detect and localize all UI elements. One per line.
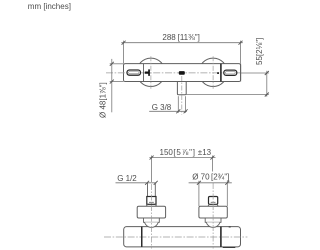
svg-text:150: 150 [160,148,174,157]
left rosette circle behind body [137,58,165,86]
bottom right cap top tick [229,226,231,228]
dim 55 line [266,71,268,97]
svg-text:Ø 70: Ø 70 [192,173,210,182]
dim 288 line [121,42,243,44]
left handle slot inner line [129,72,139,74]
left union flange [144,218,160,222]
svg-text:G 1/2: G 1/2 [117,174,137,183]
left supply pipe [147,183,149,197]
dim 150 extension left [151,156,153,183]
G1/2 leader line [116,182,157,184]
dim 150 extension right [211,156,213,172]
svg-text:Ø 48[1⅞"]: Ø 48[1⅞"] [98,82,107,118]
svg-text:288: 288 [162,33,176,42]
G3/8 leader line [149,110,187,112]
dim d48 tick top [110,62,114,66]
body bar [124,64,241,82]
right handle slot inner line [225,72,235,74]
right handle slot [224,70,237,75]
right union neck [208,204,209,206]
outlet spout G3/8 [177,82,186,95]
dim 150 tick right [210,156,214,160]
svg-text:[11⅜"]: [11⅜"] [178,33,200,42]
dim 288 extension left [123,41,125,64]
right thick joint [220,64,222,82]
left handle slot [127,70,141,75]
left boss arc [145,222,159,227]
bottom right cap sleeve step [223,247,236,249]
bottom view horizontal centerline [104,236,247,238]
right circle centerline [212,56,214,89]
bottom left cap joint [141,227,143,247]
svg-text:[2¾"]: [2¾"] [211,173,229,182]
dim 55 extension top (centerline) [241,72,269,74]
dim d70 extension left [198,181,200,206]
left union nut [147,197,156,205]
dim d48 tick bottom [110,80,114,84]
dim d48 extension top [110,63,124,65]
G3/8 tick right [184,109,188,113]
right rosette [199,206,227,218]
left circle centerline [150,56,152,89]
volume indicator dot [217,72,219,74]
center logo plate [179,71,185,75]
bottom right thick joint [220,227,222,247]
svg-text:[5⅞"]: [5⅞"] [173,148,195,157]
dim 55 tick bottom [265,93,269,97]
G3/8 extension right [185,96,187,113]
dim d70 tick left [197,181,201,185]
bottom body bar [124,227,241,247]
G1/2 tick right [154,181,158,185]
dim 288 tick right [239,41,243,45]
dim d48 extension bottom [110,81,124,83]
dim 288 tick left [122,41,126,45]
dim d70 tick right [225,181,229,185]
dim 150 line [149,157,215,159]
right cap edge [240,64,242,82]
G3/8 extension left [177,96,179,113]
G3/8 tick left [176,109,180,113]
right rosette circle behind body [199,58,227,86]
left union neck [146,204,147,206]
left assembly centerline [150,184,152,249]
dim d70 extension right [226,181,228,206]
svg-text:±13: ±13 [198,148,212,157]
svg-text:G 3/8: G 3/8 [152,103,172,112]
right assembly centerline [212,183,214,249]
dim 55 extension bottom [187,94,269,96]
G1/2 tick left [145,181,149,185]
right union flange [205,218,221,222]
right boss arc [206,222,220,227]
temperature T-mark [145,69,150,76]
horizontal centerline [106,72,241,74]
dim d70 line [189,182,232,184]
right union nut [209,197,218,205]
dim d48 line [111,59,113,112]
svg-text:55[2⅛"]: 55[2⅛"] [255,38,264,65]
outlet centerline [181,76,183,115]
dim 150 tick left [150,156,154,160]
svg-text:mm [inches]: mm [inches] [28,2,71,11]
dim 288 extension right [240,41,242,64]
left cap joint line [143,64,145,82]
dim 55 tick top [265,71,269,75]
left rosette [137,206,165,218]
